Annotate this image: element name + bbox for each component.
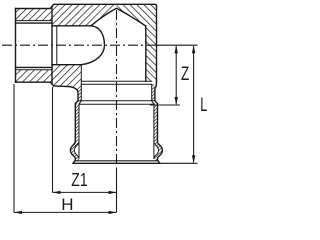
svg-text:Z: Z bbox=[181, 64, 189, 85]
svg-text:H: H bbox=[61, 195, 73, 214]
svg-text:L: L bbox=[200, 94, 207, 116]
svg-text:Z1: Z1 bbox=[71, 169, 87, 190]
